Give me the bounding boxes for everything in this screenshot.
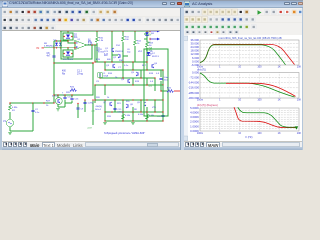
transistor Q1 <box>111 48 113 51</box>
svg-text:0.15u: 0.15u <box>118 112 124 114</box>
capacitor C13 <box>159 77 162 80</box>
diode D4 <box>59 43 62 46</box>
svg-text:5.000K: 5.000K <box>190 106 199 110</box>
svg-text:100: 100 <box>257 66 262 69</box>
svg-text:4.99k(Ra): 4.99k(Ra) <box>44 46 54 48</box>
capacitor C2 <box>31 109 34 112</box>
wire low v <box>95 85 163 121</box>
svg-text:F (Hz): F (Hz) <box>246 136 253 139</box>
svg-text:1.000K: 1.000K <box>190 124 199 128</box>
wire clamp top <box>54 41 68 48</box>
resistor R22 <box>122 114 125 119</box>
svg-text:rotor-NIKA_606_final_na_SA_lat: rotor-NIKA_606_final_na_SA_lat.CIR (DB 2… <box>218 36 281 40</box>
svg-text:1.25V: 1.25V <box>88 103 94 105</box>
capacitor C18 <box>83 101 86 104</box>
diode box D5 <box>63 50 73 57</box>
wire mid v <box>95 55 163 100</box>
wire top rail <box>68 30 150 32</box>
ground G6 <box>56 107 60 110</box>
svg-text:27mg: 27mg <box>77 73 83 75</box>
capacitor C17 <box>161 114 164 117</box>
svg-text:1K: 1K <box>278 99 281 102</box>
svg-text:ph(v(T)) (Degrees): ph(v(T)) (Degrees) <box>197 104 218 107</box>
node dots source loop <box>9 102 10 103</box>
transistor Q10 <box>57 99 59 102</box>
curve delay green <box>238 107 295 127</box>
svg-text:C1.1: C1.1 <box>77 71 83 73</box>
svg-text:IN: IN <box>37 46 40 50</box>
load box BL1 <box>144 49 168 116</box>
curve gain green <box>200 45 286 65</box>
svg-text:100m: 100m <box>197 99 203 102</box>
svg-text:1K: 1K <box>278 132 281 135</box>
svg-text:2N5551: 2N5551 <box>115 51 123 53</box>
op-amp U1 <box>75 41 87 50</box>
curve phase red <box>226 83 296 96</box>
svg-text:0.000: 0.000 <box>192 70 199 74</box>
svg-text:6mA: 6mA <box>104 75 109 78</box>
svg-text:-72.000: -72.000 <box>190 76 200 80</box>
curve gain red <box>200 44 295 64</box>
resistor R11 <box>122 36 125 41</box>
wire mid h1 <box>95 45 163 85</box>
svg-text:-144.000: -144.000 <box>188 81 199 85</box>
resistor R12 <box>134 40 137 45</box>
transistor Q8 <box>127 104 129 107</box>
curve delay red <box>234 107 297 127</box>
svg-text:-24V(4): -24V(4) <box>95 106 102 108</box>
source V1 <box>6 119 13 126</box>
transistor Q6 <box>151 64 153 67</box>
curve phase green <box>200 73 295 97</box>
ground G2 <box>103 121 107 124</box>
transistor Q5 <box>137 72 139 75</box>
wire rail drops <box>97 31 147 62</box>
svg-text:Гр1: Гр1 <box>148 85 152 88</box>
svg-text:D5 KD522: D5 KD522 <box>63 59 74 61</box>
node dots low <box>94 99 95 100</box>
plot3 delay <box>200 108 299 131</box>
capacitor C14 <box>63 96 66 99</box>
capacitor C19 <box>76 107 79 110</box>
diode D8 <box>144 31 147 34</box>
capacitor C15 <box>113 107 116 110</box>
wire out <box>174 90 180 93</box>
svg-text:2k0+4: 2k0+4 <box>95 109 102 111</box>
capacitor C8 <box>52 55 55 58</box>
feedback box <box>54 63 93 95</box>
transistor Q7 <box>109 102 111 105</box>
ground <box>8 131 12 134</box>
svg-text:100: 100 <box>257 132 262 135</box>
wire source loop <box>10 103 33 131</box>
wire op-amp inputs <box>68 41 75 43</box>
wire feedback low <box>33 95 65 107</box>
svg-text:3.000K: 3.000K <box>190 115 199 119</box>
power +36V arrow <box>150 30 157 32</box>
wire feedback frame <box>61 31 92 59</box>
svg-text:-0.69: -0.69 <box>87 128 93 130</box>
resistor R23 <box>146 114 149 119</box>
wire input <box>44 48 54 63</box>
node dots mid <box>94 61 95 62</box>
capacitor C16 <box>70 97 73 100</box>
node dots top rail <box>96 30 97 31</box>
power -36V arrow <box>144 38 157 40</box>
ground G3 <box>131 121 135 124</box>
transistor Q9 <box>143 102 145 105</box>
resistor R13 <box>146 42 149 47</box>
svg-text:KD213: KD213 <box>152 56 159 58</box>
vertical x93 net <box>78 100 93 125</box>
wire mid stub <box>112 55 135 62</box>
svg-text:-216.000: -216.000 <box>188 86 199 90</box>
resistor R10 <box>96 37 99 42</box>
svg-text:100m: 100m <box>197 132 203 135</box>
wire load v <box>161 70 167 91</box>
diode D3 <box>55 43 58 46</box>
transistor Q4 <box>127 79 129 82</box>
transistor Q3 <box>112 64 114 67</box>
transistor Q2 <box>119 54 121 57</box>
svg-text:100: 100 <box>257 99 262 102</box>
node dots clamp <box>56 40 57 41</box>
svg-text:-288.000: -288.000 <box>188 91 199 95</box>
plot2 phase <box>200 73 299 99</box>
diode box D2 <box>63 33 73 40</box>
resistor R1 <box>9 105 12 110</box>
diode D7 <box>147 52 151 55</box>
marker green <box>295 126 299 129</box>
wire low h <box>95 100 163 121</box>
current source I1 <box>97 72 103 78</box>
svg-text:4.000K: 4.000K <box>190 111 199 115</box>
svg-text:1K: 1K <box>278 66 281 69</box>
wire fb stub <box>65 95 72 103</box>
svg-text:Гибридный усилитель "НИКА-606": Гибридный усилитель "НИКА-606" <box>104 131 145 135</box>
svg-text:2.000K: 2.000K <box>190 120 199 124</box>
resistor R26 <box>70 89 76 92</box>
wire op-amp output <box>87 44 98 46</box>
svg-text:4.99k: 4.99k <box>12 107 18 109</box>
resistor R25 <box>167 90 173 93</box>
svg-text:4M+2: 4M+2 <box>52 95 58 97</box>
wire clamp bottom <box>54 47 75 49</box>
